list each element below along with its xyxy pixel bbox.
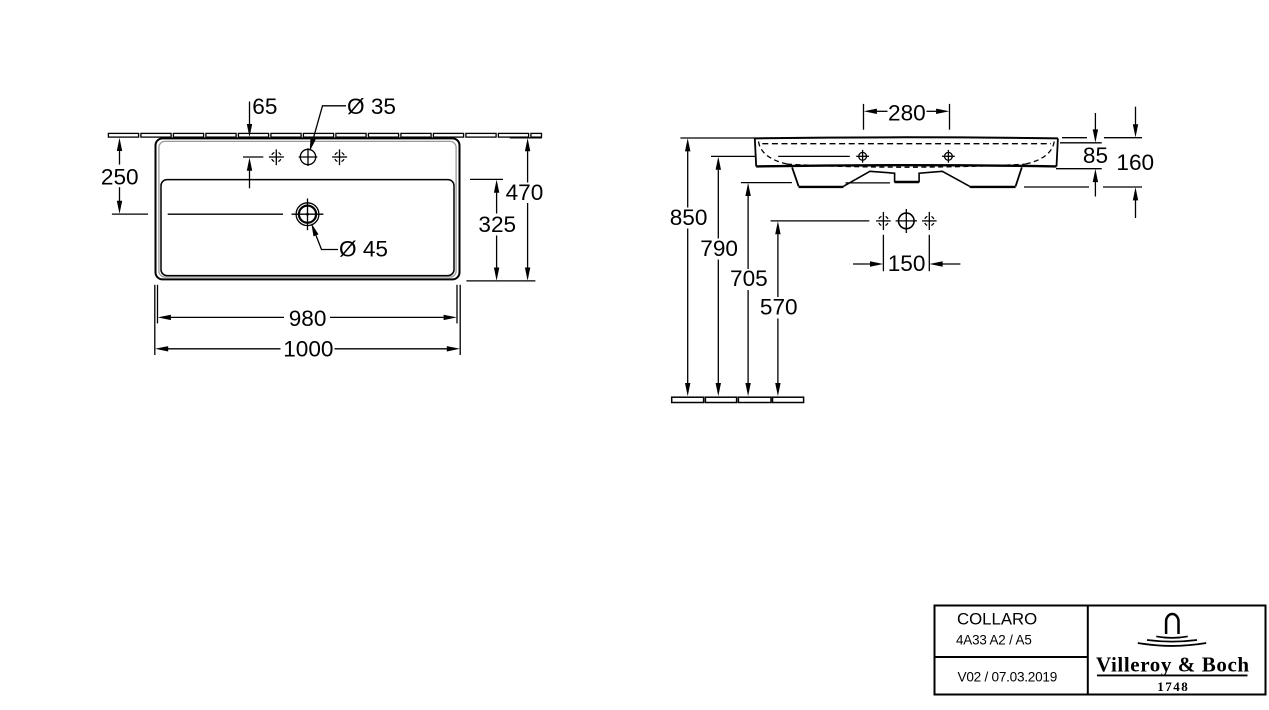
svg-text:COLLARO: COLLARO xyxy=(957,609,1037,628)
svg-text:280: 280 xyxy=(888,101,926,126)
svg-text:85: 85 xyxy=(1083,143,1108,168)
svg-text:250: 250 xyxy=(101,164,139,189)
svg-text:850: 850 xyxy=(670,205,708,230)
svg-text:V02 / 07.03.2019: V02 / 07.03.2019 xyxy=(958,670,1058,685)
svg-text:325: 325 xyxy=(478,212,516,237)
svg-text:1000: 1000 xyxy=(283,336,333,361)
svg-text:4A33 A2 / A5: 4A33 A2 / A5 xyxy=(956,633,1032,648)
svg-text:470: 470 xyxy=(506,180,544,205)
svg-text:790: 790 xyxy=(700,236,738,261)
svg-text:Villeroy & Boch: Villeroy & Boch xyxy=(1096,653,1250,677)
svg-text:570: 570 xyxy=(760,294,798,319)
svg-text:Ø 35: Ø 35 xyxy=(347,94,396,119)
svg-text:65: 65 xyxy=(252,94,277,119)
svg-text:705: 705 xyxy=(730,266,768,291)
svg-text:150: 150 xyxy=(888,251,926,276)
svg-text:Ø 45: Ø 45 xyxy=(339,237,388,262)
svg-text:160: 160 xyxy=(1116,150,1154,175)
svg-text:1748: 1748 xyxy=(1157,679,1189,694)
svg-text:980: 980 xyxy=(289,306,327,331)
